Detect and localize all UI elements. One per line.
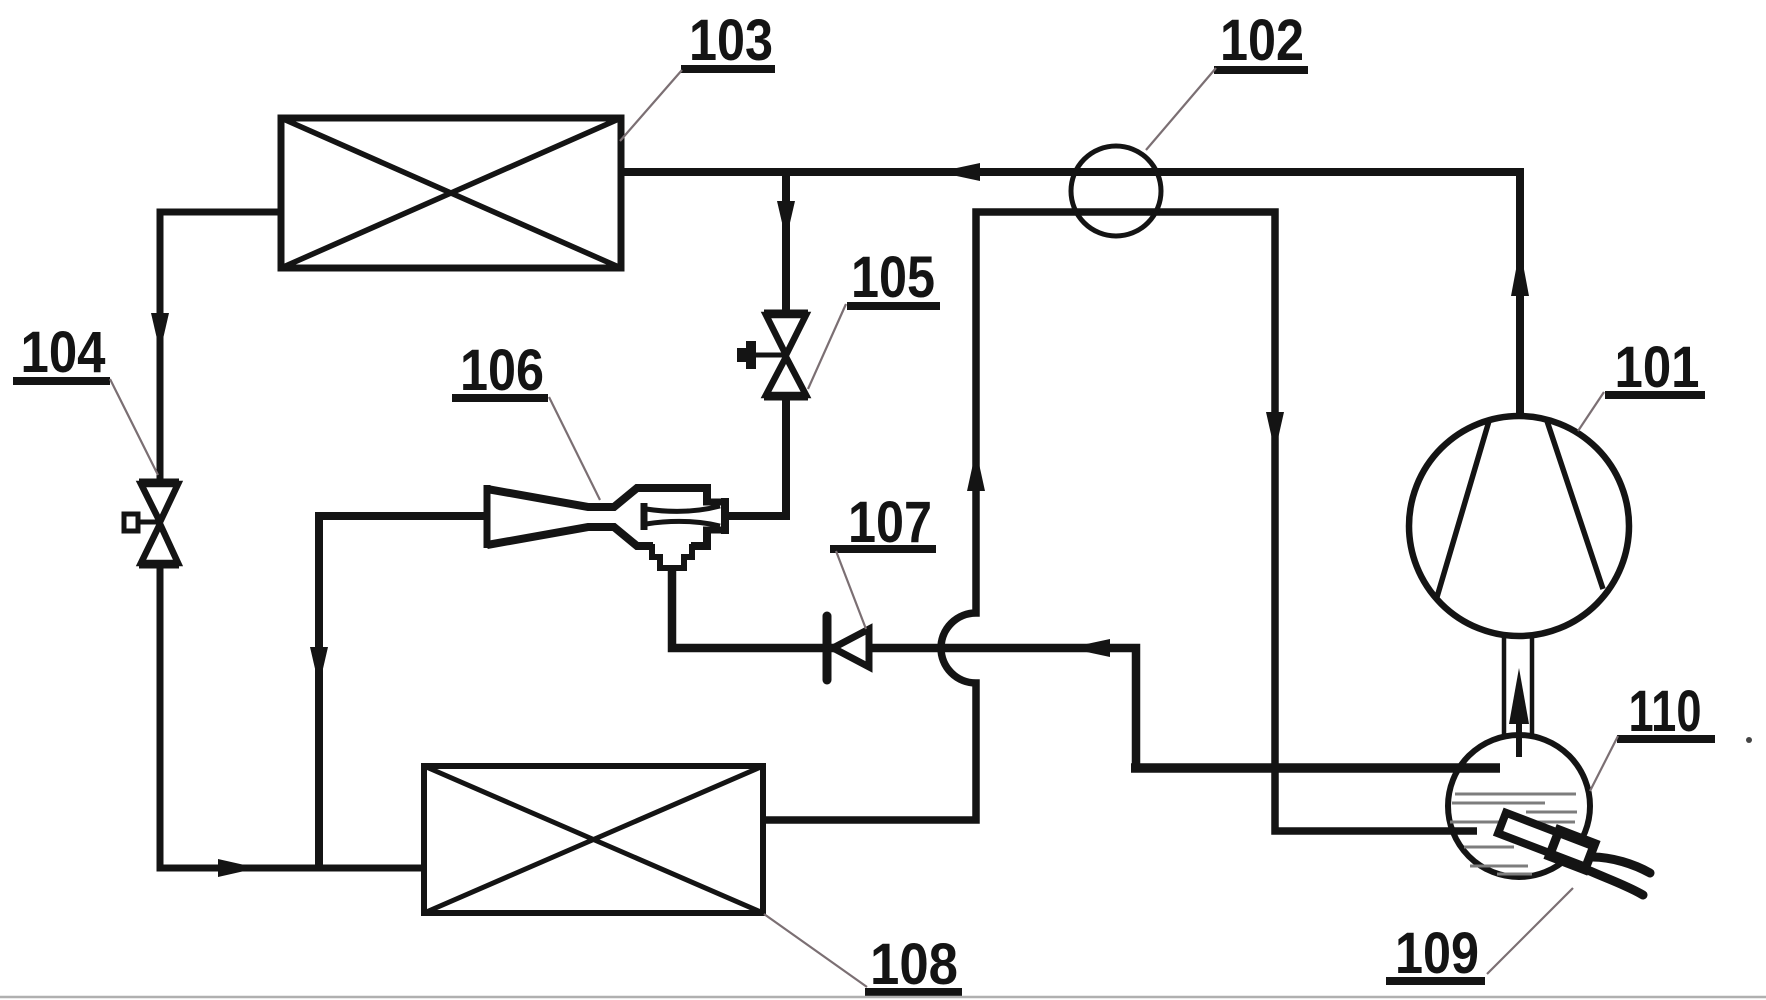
inner nozzle left wall — [641, 503, 648, 530]
svg-text:101: 101 — [1615, 335, 1700, 400]
svg-text:110: 110 — [1629, 679, 1702, 744]
liquid level lines in accumulator — [1450, 794, 1577, 874]
arrow on compressor discharge riser (up) — [1511, 248, 1529, 296]
condenser 103 (crossed box) — [281, 118, 621, 268]
right flange — [703, 502, 722, 530]
arrow on 105 branch (down) — [777, 201, 795, 240]
arrow on evaporator outlet riser (up) — [967, 450, 985, 491]
svg-text:105: 105 — [851, 245, 935, 310]
wire: evaporator 108 outlet up through IHX 102 down to accumulator 110 — [763, 212, 1477, 831]
svg-text:108: 108 — [870, 932, 958, 997]
arrow on ejector outlet drop (down) — [310, 647, 328, 686]
check valve 107 — [823, 616, 832, 680]
suction port steps — [652, 544, 692, 568]
svg-text:106: 106 — [460, 338, 544, 403]
wire: valve 104 down and right into evaporator 108 — [160, 565, 424, 868]
accumulator 110 — [1448, 735, 1590, 877]
wire: valve 105 to ejector primary inlet — [729, 397, 786, 516]
arrow on 104 line (down) — [151, 313, 169, 352]
arrow on top line (leftward) — [938, 163, 980, 181]
wire: accumulator liquid line through check valve 107 to ejector suction — [672, 568, 1136, 764]
svg-text:104: 104 — [21, 320, 106, 385]
scan artifact: bottom edge line — [0, 996, 1766, 999]
bottom outline right of port — [691, 532, 707, 546]
top outline — [487, 488, 707, 507]
expansion valve 104 (bowtie with handle) — [124, 482, 179, 565]
wire: suction pipe accumulator to compressor (double line) — [1504, 636, 1532, 737]
diffuser mouth vertical edge — [484, 485, 491, 548]
svg-text:102: 102 — [1220, 8, 1304, 73]
wire: branch down to valve 105 — [782, 172, 790, 313]
heater cable prongs — [1592, 857, 1650, 873]
ejector 106 — [487, 485, 725, 568]
arrow on evaporator feed (right) — [218, 859, 258, 877]
evaporator 108 (crossed box) — [424, 766, 763, 913]
inner nozzle channel — [646, 506, 720, 511]
wire: ejector diffuser outlet down to evaporator feed line — [319, 516, 484, 868]
svg-text:103: 103 — [689, 8, 773, 73]
internal heat exchanger 102 (circle over both lines) — [1071, 146, 1161, 236]
compressor 101 — [1409, 416, 1629, 636]
svg-text:109: 109 — [1395, 921, 1479, 986]
arrow on accumulator feed drop (down) — [1266, 412, 1284, 452]
arrow in suction pipe (up) — [1509, 668, 1529, 724]
wire: compressor discharge top line to condenser 103 — [621, 172, 1520, 416]
expansion valve 105 (bowtie with handle) — [753, 313, 808, 397]
wire: condenser 103 outlet to valve 104 — [160, 212, 281, 482]
bottom outline — [487, 527, 653, 546]
scan artifact: stray dot — [1746, 737, 1752, 743]
electric heater 109 (tilted cartridge with cable fork) — [1497, 810, 1595, 870]
arrow on suction branch line (left) — [1068, 639, 1110, 657]
